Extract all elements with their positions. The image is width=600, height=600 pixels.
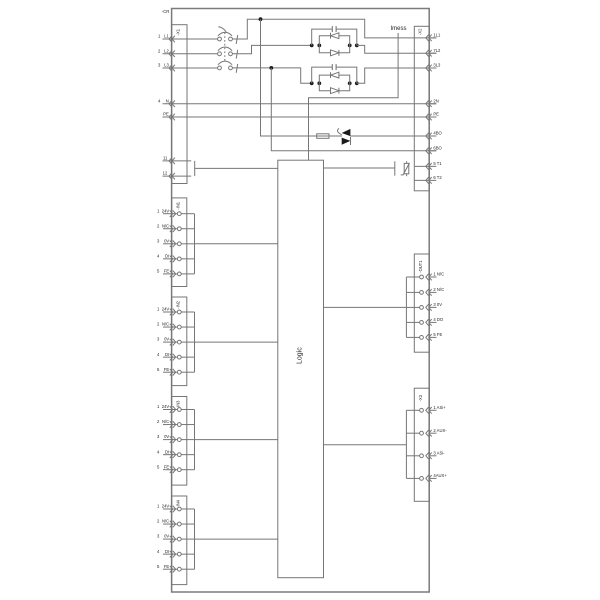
svg-text:5 FE: 5 FE: [433, 332, 442, 337]
X2 pin 7L2 contact: [426, 50, 432, 57]
connector OUT1 body: [414, 254, 429, 352]
IN1 pin 2 N/C stub: [181, 228, 194, 230]
device outline box -CR: [172, 9, 430, 593]
OUT1 pin 2 N/C stub: [406, 291, 419, 293]
connector IN3 body: [172, 397, 187, 486]
node L3d: [355, 81, 359, 85]
diode V2: [331, 50, 339, 56]
X1 pin 2 L2 contact: [169, 51, 175, 58]
svg-text:N/C: N/C: [162, 419, 169, 424]
X2 pin 5 T1 contact: [426, 163, 432, 170]
IN1 pin 5 FE contact: [170, 271, 176, 278]
X3 pin 2 AUX- wire tail: [429, 432, 437, 434]
node L2b: [317, 44, 321, 48]
IN2 pin 3 0V terminal circle: [177, 340, 181, 344]
svg-text:12: 12: [163, 171, 168, 176]
IN2 pin 2 N/C terminal circle: [177, 325, 181, 329]
switch pole bridge arc: [218, 32, 232, 36]
X2 pin 6BO contact: [426, 148, 432, 155]
svg-text:L3: L3: [164, 63, 169, 68]
svg-text:7L2: 7L2: [433, 48, 441, 53]
svg-text:DI: DI: [165, 449, 169, 454]
svg-text:1: 1: [157, 404, 160, 409]
bracket IN4: [194, 509, 196, 569]
svg-text:-IN1: -IN1: [175, 201, 180, 209]
diode V2 branch wires: [319, 45, 349, 52]
svg-text:0V: 0V: [164, 434, 169, 439]
svg-text:5 T1: 5 T1: [433, 161, 442, 166]
svg-text:-IN4: -IN4: [175, 499, 180, 507]
svg-text:N/C: N/C: [162, 519, 169, 524]
fuse F1: [317, 134, 329, 139]
X2 pin 7L2 wire tail: [429, 52, 437, 54]
IN3 pin 3 0V wire: [163, 439, 177, 441]
svg-text:1: 1: [157, 307, 160, 312]
IN3 pin 4 DI wire: [163, 454, 177, 456]
connector X2 body: [414, 26, 429, 191]
IN1 pin 3 0V stub: [181, 243, 194, 245]
X1 pin 2 L2 wire: [163, 53, 218, 55]
svg-text:1: 1: [157, 504, 160, 509]
X3 pin 1 ASi+ terminal circle: [420, 408, 424, 412]
X3 pin 4AUX+ terminal circle: [420, 477, 424, 481]
svg-text:24V: 24V: [162, 404, 170, 409]
svg-text:2: 2: [158, 48, 161, 53]
suppressor diode pair (TVS): [342, 129, 351, 145]
switch pole contact circles: [218, 52, 222, 56]
OUT1 pin 3 0V contact: [426, 304, 432, 311]
svg-text:-X3: -X3: [418, 394, 423, 401]
bracket IN2: [194, 312, 196, 372]
svg-text:5: 5: [157, 367, 160, 372]
diode V1 branch wires: [319, 36, 349, 46]
X2 pin 4BO wire tail: [429, 135, 437, 137]
X3 pin 4AUX+ stub: [406, 477, 419, 479]
svg-text:3: 3: [157, 337, 160, 342]
switch pole blade: [236, 64, 238, 73]
IN1 pin 3 0V contact: [170, 241, 176, 248]
IN3 pin 2 N/C stub: [181, 424, 194, 426]
IN4 pin 5 FE contact: [170, 566, 176, 573]
svg-text:-X1: -X1: [176, 28, 181, 35]
IN3 pin 5 FE wire: [163, 469, 177, 471]
X2 pin 3L3 contact: [426, 65, 432, 72]
svg-text:FE: FE: [164, 269, 170, 274]
svg-text:24V: 24V: [162, 504, 170, 509]
svg-text:FE: FE: [164, 464, 170, 469]
IN1 pin 3 0V terminal circle: [177, 242, 181, 246]
svg-text:4: 4: [158, 98, 161, 103]
svg-text:4BO: 4BO: [433, 131, 442, 136]
X3 pin 2 AUX- terminal circle: [420, 431, 424, 435]
IN2 pin 3 0V wire: [163, 341, 177, 343]
IN3 pin 2 N/C wire: [163, 424, 177, 426]
bracket joining pins 11 and 12: [194, 161, 196, 176]
connector IN4 body: [172, 496, 187, 585]
IN3 pin 3 0V stub: [181, 439, 194, 441]
IN2 pin 1 24V wire: [163, 311, 177, 313]
wire TVS to BO pin 4BO: [350, 135, 436, 137]
X2 pin 5 T1 wire: [414, 165, 436, 167]
X1 pin PE wire: [163, 116, 437, 118]
node L2a: [310, 44, 314, 48]
svg-text:DI: DI: [165, 352, 169, 357]
svg-text:4: 4: [157, 449, 160, 454]
svg-text:24V: 24V: [162, 307, 170, 312]
svg-text:2: 2: [157, 322, 160, 327]
svg-text:24V: 24V: [162, 208, 170, 213]
IN1 pin 1 24V contact: [170, 210, 176, 217]
switch pole contact circles: [218, 37, 222, 41]
logic block U1: [278, 160, 324, 578]
wire IN1 to logic: [195, 243, 278, 245]
diode V3 branch wires: [319, 75, 349, 83]
IN1 pin 5 FE wire: [163, 273, 177, 275]
svg-text:-X2: -X2: [417, 28, 422, 35]
svg-text:3 0V: 3 0V: [433, 302, 442, 307]
IN1 pin 4 DI stub: [181, 258, 194, 260]
X1 pin 11 contact: [169, 158, 175, 165]
X3 pin 3 ASi- stub: [406, 455, 419, 457]
bracket OUT1: [405, 277, 407, 337]
svg-text:L1: L1: [164, 34, 169, 39]
svg-text:0V: 0V: [164, 534, 169, 539]
X2 pin 3L3 wire tail: [429, 67, 437, 69]
svg-text:-CR: -CR: [162, 9, 170, 14]
node L2d: [355, 44, 359, 48]
IN1 pin 2 N/C wire: [163, 228, 177, 230]
IN2 pin 3 0V stub: [181, 341, 194, 343]
svg-text:0V: 0V: [164, 238, 169, 243]
IN4 pin 5 FE terminal circle: [177, 567, 181, 571]
X3 pin 3 ASi- wire tail: [429, 455, 437, 457]
IN4 pin 1 24V wire: [163, 508, 177, 510]
svg-text:4: 4: [157, 253, 160, 258]
IN1 pin 4 DI contact: [170, 256, 176, 263]
X2 pin PE wire tail: [429, 116, 437, 118]
X1 pin 12 wire: [163, 175, 192, 177]
IN2 pin 2 N/C stub: [181, 326, 194, 328]
svg-text:2N: 2N: [433, 99, 438, 104]
svg-text:4 DO: 4 DO: [433, 317, 444, 322]
OUT1 pin 4 DO terminal circle: [420, 321, 424, 325]
svg-text:5: 5: [157, 464, 160, 469]
OUT1 pin 5 FE wire tail: [429, 336, 437, 338]
svg-text:-IN2: -IN2: [175, 300, 180, 308]
switch pole bridge arc: [218, 47, 232, 51]
svg-text:PE: PE: [433, 112, 439, 117]
svg-text:Logic: Logic: [296, 347, 303, 364]
IN2 pin 1 24V stub: [181, 311, 194, 313]
svg-text:1: 1: [157, 208, 160, 213]
svg-text:PE: PE: [163, 112, 169, 117]
diode V3: [331, 72, 339, 78]
svg-text:N/C: N/C: [162, 322, 169, 327]
OUT1 pin 3 0V terminal circle: [420, 306, 424, 310]
switch pole blade: [236, 35, 238, 44]
switch pole bridge arc: [218, 61, 232, 65]
svg-text:Imess: Imess: [391, 26, 407, 32]
svg-text:3: 3: [157, 434, 160, 439]
IN2 pin 3 0V contact: [170, 339, 176, 346]
OUT1 pin 1 N/C stub: [406, 276, 419, 278]
IN3 pin 2 N/C contact: [170, 421, 176, 428]
svg-text:2 N/C: 2 N/C: [433, 287, 444, 292]
OUT1 pin 2 N/C contact: [426, 289, 432, 296]
svg-text:3: 3: [157, 238, 160, 243]
svg-text:FE: FE: [164, 367, 170, 372]
diode V4 branch wires: [319, 83, 349, 90]
IN4 pin 3 0V stub: [181, 538, 194, 540]
IN1 pin 5 FE stub: [181, 273, 194, 275]
OUT1 pin 5 FE stub: [406, 336, 419, 338]
svg-text:2: 2: [157, 419, 160, 424]
mechanical link dashed line: [224, 32, 226, 61]
X3 pin 4AUX+ contact: [426, 475, 432, 482]
OUT1 pin 4 DO contact: [426, 319, 432, 326]
X2 pin 4BO contact: [426, 133, 432, 140]
node L3a: [310, 81, 314, 85]
svg-text:DI: DI: [165, 549, 169, 554]
svg-text:1: 1: [158, 34, 161, 39]
node L3c: [348, 81, 352, 85]
IN2 pin 5 FE terminal circle: [177, 370, 181, 374]
svg-text:0V: 0V: [164, 337, 169, 342]
svg-text:3: 3: [158, 63, 161, 68]
IN3 pin 4 DI terminal circle: [177, 453, 181, 457]
IN4 pin 4 DI terminal circle: [177, 552, 181, 556]
IN3 pin 4 DI contact: [170, 451, 176, 458]
diode V1: [331, 33, 339, 39]
IN2 pin 4 DI wire: [163, 356, 177, 358]
IN1 pin 5 FE terminal circle: [177, 272, 181, 276]
OUT1 pin 4 DO stub: [406, 321, 419, 323]
X2 pin 2N wire tail: [429, 103, 437, 105]
IN3 pin 3 0V contact: [170, 436, 176, 443]
X3 pin 2 AUX- stub: [406, 432, 419, 434]
switch pole contact circles: [218, 66, 222, 70]
X1 pin 12 contact: [169, 173, 175, 180]
X1 pin 1 L1 wire: [163, 38, 218, 40]
capacitor C1 branch wires: [312, 29, 357, 45]
IN3 pin 4 DI stub: [181, 454, 194, 456]
wire L2 network to pin 7L2: [357, 45, 437, 53]
X3 pin 1 ASi+ contact: [426, 407, 432, 414]
OUT1 pin 1 N/C terminal circle: [420, 275, 424, 279]
wire L2 switch to network 1: [232, 45, 311, 53]
IN1 pin 4 DI wire: [163, 258, 177, 260]
wire logic to OUT1: [324, 306, 407, 308]
IN1 pin 3 0V wire: [163, 243, 177, 245]
IN4 pin 4 DI contact: [170, 551, 176, 558]
X3 pin 4AUX+ wire tail: [429, 477, 437, 479]
OUT1 pin 1 N/C wire tail: [429, 276, 437, 278]
IN3 pin 5 FE stub: [181, 469, 194, 471]
OUT1 pin 4 DO wire tail: [429, 321, 437, 323]
IN4 pin 5 FE stub: [181, 568, 194, 570]
svg-text:11: 11: [163, 156, 168, 161]
IN1 pin 4 DI terminal circle: [177, 257, 181, 261]
capacitor C2 branch wires: [312, 67, 357, 83]
wire L3 network to pin 3L3: [357, 68, 437, 83]
svg-text:-IN3: -IN3: [175, 400, 180, 408]
svg-text:4AUX+: 4AUX+: [433, 473, 447, 478]
IN1 pin 2 N/C terminal circle: [177, 227, 181, 231]
bracket X3: [405, 410, 407, 478]
wire pins 11/12 to logic: [195, 167, 278, 169]
svg-text:5: 5: [157, 269, 160, 274]
X3 pin 1 ASi+ stub: [406, 409, 419, 411]
X1 pin 3 L3 contact: [169, 65, 175, 72]
X2 pin 6BO wire tail: [429, 150, 437, 152]
svg-text:L2: L2: [164, 48, 169, 53]
X3 pin 2 AUX- contact: [426, 430, 432, 437]
svg-text:1 N/C: 1 N/C: [433, 272, 444, 277]
IN1 pin 2 N/C contact: [170, 225, 176, 232]
connector X3 body: [414, 388, 429, 501]
svg-text:4: 4: [157, 352, 160, 357]
OUT1 pin 5 FE terminal circle: [420, 336, 424, 340]
IN2 pin 2 N/C wire: [163, 326, 177, 328]
IN4 pin 1 24V stub: [181, 508, 194, 510]
wire logic to X3: [324, 444, 407, 446]
svg-text:5: 5: [157, 564, 160, 569]
X2 pin 6 T2 wire: [414, 179, 436, 181]
IN2 pin 2 N/C contact: [170, 324, 176, 331]
svg-text:DI: DI: [165, 253, 169, 258]
wire L3 switch to network 2: [232, 68, 311, 83]
svg-text:4: 4: [157, 549, 160, 554]
diode V4: [331, 88, 339, 94]
thermistor RT1: [406, 161, 408, 163]
wire Imess measuring line to logic: [309, 33, 399, 160]
connector IN1 body: [172, 198, 187, 287]
X1 pin 4 N contact: [169, 101, 175, 108]
node L2c: [348, 44, 352, 48]
IN3 pin 5 FE terminal circle: [177, 468, 181, 472]
IN2 pin 1 24V contact: [170, 309, 176, 316]
IN1 pin 1 24V wire: [163, 213, 177, 215]
wire L3 tap down to pin 6BO: [271, 68, 436, 151]
X2 pin 2N contact: [426, 101, 432, 108]
svg-text:6 T2: 6 T2: [433, 175, 442, 180]
OUT1 pin 3 0V wire tail: [429, 306, 437, 308]
svg-text:-OUT1: -OUT1: [418, 260, 423, 273]
IN4 pin 2 N/C contact: [170, 521, 176, 528]
wire IN4 to logic: [195, 538, 278, 540]
junction L1 supply tap: [259, 17, 263, 21]
IN3 pin 1 24V contact: [170, 406, 176, 413]
IN2 pin 5 FE stub: [181, 371, 194, 373]
IN4 pin 3 0V terminal circle: [177, 537, 181, 541]
wire IN3 to logic: [195, 439, 278, 441]
thermistor coupling plate: [394, 161, 396, 175]
X2 pin 1L1 wire tail: [429, 37, 437, 39]
X1 pin PE contact: [169, 114, 175, 121]
X1 pin 3 L3 wire: [163, 67, 218, 69]
connector IN2 body: [172, 297, 187, 386]
IN3 pin 2 N/C terminal circle: [177, 423, 181, 427]
svg-text:N/C: N/C: [162, 223, 169, 228]
OUT1 pin 1 N/C contact: [426, 274, 432, 281]
capacitor C1: [331, 26, 333, 32]
X3 pin 1 ASi+ wire tail: [429, 409, 437, 411]
X1 pin 1 L1 contact: [169, 36, 175, 43]
OUT1 pin 5 FE contact: [426, 334, 432, 341]
X1 pin 11 wire: [163, 160, 192, 162]
svg-text:2: 2: [157, 519, 160, 524]
OUT1 pin 2 N/C wire tail: [429, 291, 437, 293]
wire logic to thermistor plate: [324, 167, 395, 169]
IN3 pin 1 24V stub: [181, 409, 194, 411]
IN4 pin 1 24V terminal circle: [177, 507, 181, 511]
OUT1 pin 2 N/C terminal circle: [420, 291, 424, 295]
IN4 pin 3 0V wire: [163, 538, 177, 540]
bracket IN1: [194, 214, 196, 274]
IN4 pin 1 24V contact: [170, 506, 176, 513]
IN4 pin 2 N/C wire: [163, 523, 177, 525]
IN2 pin 1 24V terminal circle: [177, 310, 181, 314]
connector X1 body: [172, 25, 187, 184]
IN4 pin 2 N/C stub: [181, 523, 194, 525]
IN4 pin 4 DI stub: [181, 553, 194, 555]
svg-text:1L1: 1L1: [433, 33, 441, 38]
IN2 pin 4 DI stub: [181, 356, 194, 358]
capacitor C2: [331, 64, 333, 70]
IN1 pin 1 24V stub: [181, 213, 194, 215]
IN2 pin 5 FE contact: [170, 369, 176, 376]
actuator curl on pole L1: [218, 27, 226, 32]
IN2 pin 4 DI contact: [170, 354, 176, 361]
X3 pin 3 ASi- terminal circle: [420, 454, 424, 458]
switch pole blade: [236, 50, 238, 59]
IN3 pin 5 FE contact: [170, 466, 176, 473]
wire IN2 to logic: [195, 341, 278, 343]
IN4 pin 3 0V contact: [170, 536, 176, 543]
svg-text:2: 2: [157, 223, 160, 228]
X2 pin PE contact: [426, 114, 432, 121]
svg-text:2 AUX-: 2 AUX-: [433, 428, 447, 433]
junction L3 supply tap: [269, 66, 273, 70]
bracket IN3: [194, 410, 196, 470]
IN2 pin 5 FE wire: [163, 371, 177, 373]
X3 pin 3 ASi- contact: [426, 453, 432, 460]
IN4 pin 5 FE wire: [163, 568, 177, 570]
svg-text:3: 3: [157, 534, 160, 539]
X2 pin 6 T2 contact: [426, 177, 432, 184]
IN1 pin 1 24V terminal circle: [177, 212, 181, 216]
svg-text:6BO: 6BO: [433, 146, 442, 151]
node L3b: [317, 81, 321, 85]
X2 pin 1L1 contact: [426, 35, 432, 42]
svg-text:FE: FE: [164, 564, 170, 569]
IN3 pin 3 0V terminal circle: [177, 438, 181, 442]
IN3 pin 1 24V terminal circle: [177, 408, 181, 412]
IN4 pin 2 N/C terminal circle: [177, 522, 181, 526]
svg-text:1 ASi+: 1 ASi+: [433, 405, 446, 410]
svg-text:N: N: [166, 98, 169, 103]
IN2 pin 4 DI terminal circle: [177, 355, 181, 359]
svg-text:3 ASi-: 3 ASi-: [433, 451, 445, 456]
IN4 pin 4 DI wire: [163, 553, 177, 555]
wire supply tap down to BO line: [261, 19, 342, 136]
svg-text:3L3: 3L3: [433, 63, 441, 68]
OUT1 pin 3 0V stub: [406, 306, 419, 308]
X1 pin 4 N wire: [163, 103, 437, 105]
IN3 pin 1 24V wire: [163, 409, 177, 411]
wire L1 from switch to top bus: [232, 19, 436, 39]
